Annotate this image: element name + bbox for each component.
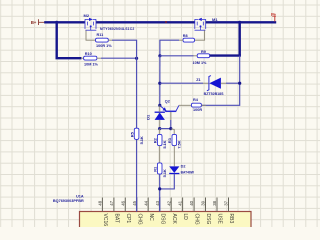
wire R11 to column A xyxy=(108,39,112,41)
svg-text:LD: LD xyxy=(182,214,188,221)
transistor M1 xyxy=(195,18,206,30)
junction column B / R9 xyxy=(158,54,161,57)
resistor R8 xyxy=(183,38,195,42)
wire thick P+ column down xyxy=(238,22,240,55)
junction column B / Q2 emitter xyxy=(158,104,161,107)
junction column A / R10 xyxy=(135,57,138,60)
resistor R1 xyxy=(157,163,162,174)
svg-text:R8: R8 xyxy=(183,34,188,38)
svg-text:DSG: DSG xyxy=(205,214,211,225)
svg-text:7.5K: 7.5K xyxy=(177,140,182,148)
svg-text:NC: NC xyxy=(148,214,154,222)
svg-text:R9: R9 xyxy=(201,50,206,54)
resistor R3 xyxy=(172,134,177,145)
wire R8 to column B xyxy=(179,39,183,41)
svg-text:39: 39 xyxy=(201,200,206,205)
transistor M2 xyxy=(85,18,96,30)
svg-text:38: 38 xyxy=(212,200,217,205)
wire thick branch down to R10 xyxy=(57,22,82,58)
svg-text:5.1K: 5.1K xyxy=(139,136,144,144)
wire R3 bottom to D2 xyxy=(173,146,175,167)
wire R1 bottom to pin 43 xyxy=(159,174,161,211)
wire jog to R3 xyxy=(171,129,174,134)
svg-text:45: 45 xyxy=(132,200,137,205)
wire Q2 base down xyxy=(170,120,172,129)
svg-text:100R 1%: 100R 1% xyxy=(96,44,112,48)
wire P+ column thin down xyxy=(202,56,240,106)
junction bus at P+ column xyxy=(238,21,241,24)
junction R1 / D2 return xyxy=(158,187,161,190)
wire Q2 collector to R4 xyxy=(179,104,191,106)
svg-text:MTY0602N04LS1C2: MTY0602N04LS1C2 xyxy=(100,27,134,31)
port P+ xyxy=(271,12,277,22)
wire thick R9 to P+ column xyxy=(210,54,241,56)
pin numbers xyxy=(98,200,229,205)
port B+ xyxy=(31,19,45,25)
wire bus B+ to M2 xyxy=(44,21,85,23)
svg-text:46: 46 xyxy=(120,200,125,205)
diode D1 xyxy=(155,105,165,128)
wire cross connector to Q2 base column xyxy=(160,128,171,130)
svg-text:BZT52B18S: BZT52B18S xyxy=(204,92,225,96)
svg-text:R10: R10 xyxy=(85,52,92,56)
svg-text:ACK: ACK xyxy=(171,214,177,225)
svg-text:37: 37 xyxy=(224,200,229,205)
no-erc marker xyxy=(165,21,167,23)
IC U1A body xyxy=(80,212,252,230)
junction column B top of R2 xyxy=(158,127,161,130)
resistor R4 xyxy=(191,103,201,107)
svg-text:U1A: U1A xyxy=(76,195,84,199)
wire bus M2 to M1 xyxy=(96,21,195,23)
wire M2 gate to R11 xyxy=(86,30,95,40)
diode D2 xyxy=(169,166,179,173)
resistor R9 xyxy=(197,54,210,58)
pin names xyxy=(102,214,234,227)
wire D2 bottom to column B xyxy=(160,174,175,189)
svg-text:VC16: VC16 xyxy=(102,214,108,227)
wire Z1 right lead xyxy=(221,82,226,84)
svg-text:CP1: CP1 xyxy=(125,214,131,224)
resistor R5 xyxy=(134,128,139,139)
IC pins xyxy=(102,198,228,212)
svg-text:RB3: RB3 xyxy=(228,214,234,224)
svg-text:BQ7693003PFBR: BQ7693003PFBR xyxy=(53,199,84,203)
svg-text:Q2: Q2 xyxy=(165,100,170,104)
resistor R11 xyxy=(96,38,109,42)
svg-text:CHG: CHG xyxy=(136,214,142,225)
junction column B / Z1 xyxy=(158,82,161,85)
wire Z1 left lead xyxy=(160,82,203,84)
svg-text:40: 40 xyxy=(189,200,194,205)
junction Z1 / P+ column xyxy=(238,82,241,85)
svg-text:R11: R11 xyxy=(97,33,104,37)
svg-text:BAT46W: BAT46W xyxy=(181,170,195,174)
junction Q2 base / R3 xyxy=(169,127,172,130)
svg-text:D1: D1 xyxy=(146,114,151,120)
wire R2 bottom to R1 top xyxy=(159,146,161,163)
svg-text:B+: B+ xyxy=(31,20,37,25)
wire R10 to column A xyxy=(97,57,101,59)
wire M1 gate to R8 xyxy=(195,30,205,40)
svg-text:10M 1%: 10M 1% xyxy=(84,63,99,67)
svg-text:10M 1%: 10M 1% xyxy=(193,61,208,65)
svg-text:USE: USE xyxy=(217,214,223,225)
svg-text:R1: R1 xyxy=(152,166,157,172)
wire R5 bottom to pin 45 xyxy=(136,139,138,211)
wire R4 right lead xyxy=(201,104,206,106)
svg-text:R5: R5 xyxy=(129,131,134,137)
wire column B down xyxy=(159,56,161,106)
svg-text:M2: M2 xyxy=(84,13,90,18)
svg-text:100R: 100R xyxy=(193,108,202,112)
svg-text:44: 44 xyxy=(143,200,148,205)
resistor R2 xyxy=(159,129,161,135)
svg-text:Z1: Z1 xyxy=(196,78,200,82)
transistor Q2 xyxy=(160,105,179,120)
svg-text:41: 41 xyxy=(178,200,183,205)
wire bus M1 to P+ xyxy=(206,21,277,23)
svg-text:48: 48 xyxy=(98,200,103,205)
svg-text:42: 42 xyxy=(166,200,171,205)
diode Z1 zener xyxy=(207,76,221,91)
svg-text:DSG: DSG xyxy=(159,214,165,225)
svg-text:CHG: CHG xyxy=(194,214,200,225)
svg-text:43: 43 xyxy=(155,200,160,205)
wire column A down to R5 xyxy=(136,54,138,128)
wire overlays on pins 45 and 43 xyxy=(137,197,160,212)
svg-text:D2: D2 xyxy=(181,165,186,169)
junction B+ branch xyxy=(55,21,58,24)
svg-text:5.1K: 5.1K xyxy=(162,169,167,177)
svg-text:R3: R3 xyxy=(167,137,172,143)
svg-text:47: 47 xyxy=(109,200,114,205)
resistor R10 xyxy=(81,57,84,59)
wire R9 left lead xyxy=(160,55,194,57)
svg-text:BAT: BAT xyxy=(114,214,120,223)
svg-text:R2: R2 xyxy=(152,137,157,143)
